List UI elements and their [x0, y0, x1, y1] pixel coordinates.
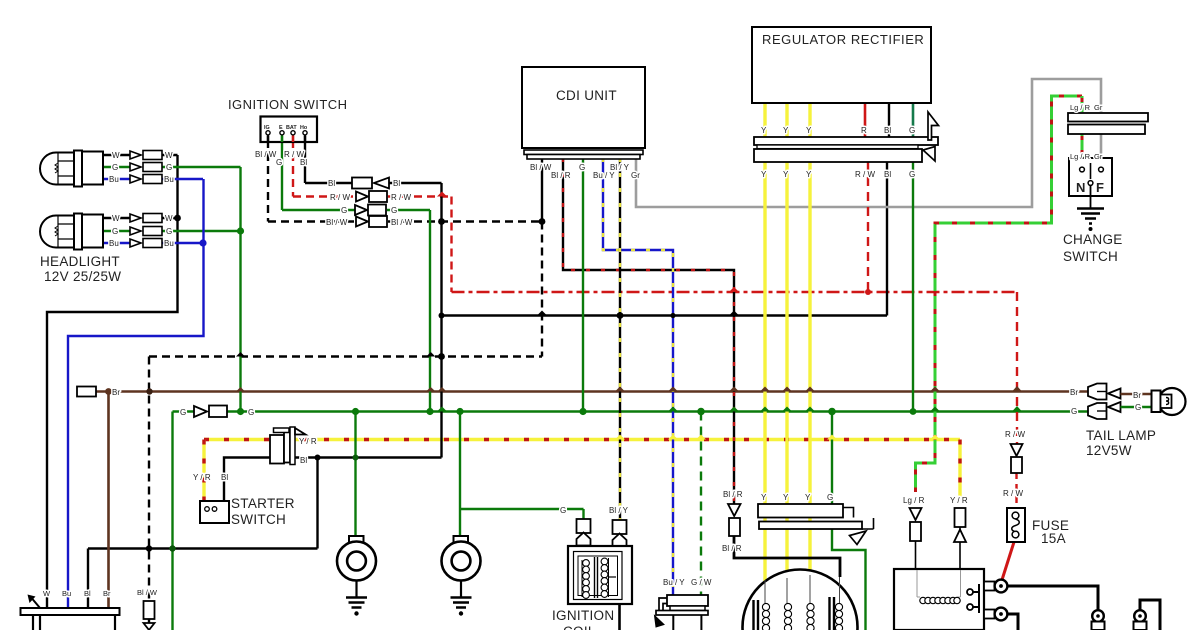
wire G from CDI: [582, 158, 584, 412]
svg-text:Y: Y: [783, 493, 789, 502]
wire Bu headlight blue: [68, 179, 204, 608]
horn 1: [337, 536, 376, 597]
svg-text:Y: Y: [761, 493, 767, 502]
svg-text:Bl / W: Bl / W: [530, 163, 552, 172]
svg-text:G: G: [276, 158, 282, 167]
svg-text:BAT: BAT: [286, 125, 297, 131]
svg-text:HEADLIGHT: HEADLIGHT: [40, 254, 120, 269]
wire Bl starter button: [224, 458, 271, 502]
svg-text:Bu: Bu: [109, 239, 119, 248]
svg-text:Bl / W: Bl / W: [391, 218, 413, 227]
svg-text:W: W: [112, 214, 120, 223]
Y/R connector pair: [954, 508, 966, 542]
wire R red from regulator: [864, 103, 867, 137]
svg-text:CDI UNIT: CDI UNIT: [556, 88, 617, 103]
svg-text:Gr: Gr: [631, 171, 640, 180]
resistor on Bl/W tail: [144, 601, 155, 630]
regulator rectifier box: [752, 27, 931, 103]
svg-text:G: G: [909, 126, 915, 135]
svg-text:Y / R: Y / R: [299, 437, 317, 446]
svg-text:Bl: Bl: [221, 473, 228, 482]
starter relay coil: [920, 597, 960, 603]
svg-text:E: E: [279, 125, 283, 131]
wire Bl/W from IG pin: [267, 140, 269, 222]
svg-text:Bl: Bl: [393, 179, 400, 188]
svg-text:IGNITION: IGNITION: [552, 608, 614, 623]
node R/W regulator join: [865, 289, 871, 295]
ignition coil box: [568, 546, 632, 630]
svg-text:G: G: [112, 227, 118, 236]
svg-text:R / W: R / W: [1003, 489, 1023, 498]
svg-text:G: G: [560, 506, 566, 515]
CDI unit box: [522, 67, 645, 159]
brown bus end connector: [77, 387, 96, 397]
node Bl/W bus x442: [438, 218, 445, 225]
svg-text:Bu: Bu: [109, 175, 119, 184]
svg-text:Y: Y: [761, 170, 767, 179]
svg-text:G: G: [1071, 407, 1077, 416]
svg-text:G: G: [112, 163, 118, 172]
svg-text:G: G: [180, 408, 186, 417]
wire Bl kill bus riser to regulator: [886, 162, 888, 316]
wire R/W from BAT pin: [293, 140, 452, 292]
svg-text:Bl / Y: Bl / Y: [609, 506, 629, 515]
svg-text:G: G: [579, 163, 585, 172]
wire hops on Bl/W dashed horizontal: [236, 352, 435, 357]
wire Bu/Y from CDI: [603, 158, 673, 595]
node G low cross: [169, 545, 175, 551]
svg-text:G: G: [341, 206, 347, 215]
wire G tail pigtail: [1121, 406, 1153, 409]
svg-text:Br: Br: [1070, 388, 1078, 397]
wire Lg/R light green from change switch to starter relay: [916, 96, 1083, 492]
node G CDI join: [579, 408, 586, 415]
ground horn 2: [451, 598, 472, 616]
wire Gr gray from CDI to change switch: [636, 79, 1101, 207]
ignition coil Bl/Y connector: [613, 520, 627, 546]
svg-text:Lg / R: Lg / R: [1070, 103, 1091, 112]
wire G from E pin: [282, 140, 430, 412]
battery terminal 2: [1134, 610, 1147, 630]
node Bl/Y kill junction: [617, 312, 624, 319]
svg-text:STARTER: STARTER: [231, 496, 295, 511]
svg-text:Y: Y: [805, 493, 811, 502]
node Bl/W CDI join: [539, 218, 546, 225]
alternator 2P connector (Bu/Y G/W): [655, 595, 709, 630]
svg-text:R: R: [861, 126, 867, 135]
svg-text:CHANGE: CHANGE: [1063, 232, 1123, 247]
svg-text:Bu: Bu: [62, 589, 71, 598]
wire Bl/W from CDI: [149, 158, 542, 623]
wire hop on red R/W bullet row: [437, 192, 739, 293]
tail lamp Br spade pair: [1088, 384, 1121, 400]
svg-text:G: G: [1135, 403, 1141, 412]
svg-text:SWITCH: SWITCH: [231, 512, 286, 527]
svg-text:Bl: Bl: [884, 170, 891, 179]
svg-text:Ho: Ho: [300, 125, 308, 131]
ignition bullet row R/W: [356, 191, 387, 202]
wire Br tail pigtail: [1121, 393, 1153, 396]
wire Y/R drop to starter relay: [958, 440, 961, 570]
wire Bl/W dashed branch bus y221.5: [268, 220, 542, 222]
ignition bullet row G: [355, 205, 386, 216]
svg-text:Bl / Y: Bl / Y: [610, 163, 630, 172]
svg-text:Bl: Bl: [300, 456, 307, 465]
svg-text:Y: Y: [783, 126, 789, 135]
wire G/W to alternator connector: [700, 412, 702, 596]
wire Y yellow phase 2: [785, 103, 788, 578]
wire R/W fuse feed: [1015, 292, 1018, 508]
svg-text:Y: Y: [806, 170, 812, 179]
svg-text:Bl / W: Bl / W: [326, 218, 348, 227]
ground change switch: [1077, 209, 1104, 232]
wire Bl/Y from CDI: [619, 158, 621, 520]
svg-text:W: W: [112, 151, 120, 160]
node Bl kill bus tap: [439, 313, 445, 319]
node Bl/W low cross: [146, 545, 152, 551]
node Bl/W lower x442: [438, 353, 445, 360]
svg-text:R / W: R / W: [330, 193, 350, 202]
wire Lg/R change switch lower: [1081, 134, 1084, 165]
svg-text:W: W: [165, 214, 173, 223]
wire R battery cable from fuse: [1001, 542, 1014, 583]
wire Bl from Ho pin: [294, 140, 442, 549]
fuse 15A: [1007, 508, 1025, 542]
node G diode out: [237, 408, 244, 415]
wire Bl/W dashed horizontal y356.5: [149, 355, 542, 357]
svg-text:SWITCH: SWITCH: [1063, 249, 1118, 264]
wire Y yellow phase 1: [763, 103, 766, 581]
wire Bl kill bus y315.5: [442, 314, 888, 316]
wire hop on kill bus: [537, 311, 739, 316]
wire G headlight green: [103, 167, 241, 412]
ignition coil G connector: [577, 519, 591, 546]
magneto cores: [754, 597, 835, 630]
node G starter wire cross: [353, 455, 359, 461]
wire Br brown drop to handlebar: [107, 392, 110, 609]
ignition switch box: [261, 117, 318, 143]
svg-text:IGNITION SWITCH: IGNITION SWITCH: [228, 97, 347, 112]
svg-text:G: G: [248, 408, 254, 417]
svg-text:W: W: [43, 589, 51, 598]
battery terminal 1: [1092, 610, 1105, 630]
svg-text:G: G: [391, 206, 397, 215]
wire R/W red dash-dot bus y292: [452, 291, 1018, 293]
wire G horn branch 1: [354, 412, 356, 538]
svg-text:Bl / R: Bl / R: [722, 544, 742, 553]
svg-text:Bu / Y: Bu / Y: [663, 578, 685, 587]
svg-text:Br: Br: [1133, 391, 1141, 400]
node G regulator join: [910, 408, 917, 415]
svg-text:Bl: Bl: [328, 179, 335, 188]
headlight bulb 2: [40, 214, 103, 250]
node G switch join: [426, 408, 433, 415]
node G2 join: [237, 227, 244, 234]
magneto connector: [758, 504, 874, 545]
change switch connector: [1068, 113, 1148, 134]
svg-text:Lg / R: Lg / R: [903, 496, 925, 505]
svg-text:15A: 15A: [1041, 531, 1066, 546]
regulator connector: [754, 112, 939, 162]
node Bu/Y cross kill: [670, 313, 675, 318]
node G horn1 tap: [352, 408, 359, 415]
wire battery jumper bottom right: [1140, 600, 1160, 630]
svg-text:Gr: Gr: [1094, 103, 1103, 112]
wire Gr gray change switch lower: [1100, 134, 1103, 165]
svg-text:Br: Br: [112, 388, 120, 397]
svg-text:Bl: Bl: [884, 126, 891, 135]
svg-text:Bl / W: Bl / W: [255, 150, 277, 159]
wire hops on green bus: [437, 406, 1022, 412]
Bl/R connector pair: [728, 504, 741, 536]
svg-text:TAIL LAMP: TAIL LAMP: [1086, 428, 1156, 443]
svg-text:G: G: [166, 163, 172, 172]
ground horn 1: [346, 598, 367, 616]
svg-text:12V5W: 12V5W: [1086, 443, 1132, 458]
starter relay box: [894, 569, 984, 630]
tail lamp G spade pair: [1088, 402, 1121, 419]
svg-text:Bl / W: Bl / W: [137, 588, 158, 597]
svg-text:Bu / Y: Bu / Y: [593, 171, 615, 180]
starter button connector: [270, 427, 306, 465]
svg-text:Y / R: Y / R: [193, 473, 211, 482]
node G magneto tap: [828, 408, 836, 416]
svg-text:G: G: [827, 493, 833, 502]
wire Lg/R connector tail: [915, 541, 917, 569]
wire G magneto ground branch: [832, 412, 866, 630]
wire Bl low bus y548.5 from starter circuit: [88, 549, 318, 609]
node W2 join: [174, 215, 181, 222]
wire W headlight white: [47, 155, 178, 608]
node G G/W tap: [697, 408, 705, 416]
svg-text:Y: Y: [761, 126, 767, 135]
svg-text:Bl / R: Bl / R: [551, 171, 571, 180]
svg-text:R / W: R / W: [391, 193, 411, 202]
magneto flywheel: [743, 570, 858, 630]
wire Bl starter cable to terminal: [1005, 586, 1098, 611]
handlebar switch block bottom left: [21, 595, 120, 630]
svg-text:R / W: R / W: [855, 170, 875, 179]
wire Bl below regulator: [888, 103, 890, 137]
wire G regulator ground: [912, 103, 915, 412]
wire G left frame ground drop: [171, 412, 173, 630]
node Bu2 join: [199, 239, 206, 246]
change switch box: [1069, 158, 1112, 208]
wire Y/R yellow bus y439.5: [204, 438, 960, 441]
wire Y yellow phase 3: [808, 103, 811, 580]
svg-text:Bl: Bl: [300, 158, 307, 167]
wire hops on yellow bus: [615, 435, 940, 440]
starter relay terminals: [995, 580, 1008, 621]
svg-text:REGULATOR RECTIFIER: REGULATOR RECTIFIER: [762, 32, 924, 47]
svg-text:G: G: [166, 227, 172, 236]
ignition bullet connectors row Bl: [352, 178, 389, 189]
svg-text:12V 25/25W: 12V 25/25W: [44, 269, 121, 284]
wire Bl lower terminal cable: [1005, 614, 1018, 630]
wire Bl/Y ignition coil primary: [619, 534, 621, 547]
wire Br brown bus y391: [95, 390, 1088, 393]
starter relay contacts: [967, 582, 995, 619]
svg-text:Y: Y: [783, 170, 789, 179]
starter switch box: [200, 501, 229, 523]
node G horn2 tap: [456, 408, 463, 415]
node Br Bl/W cross: [146, 388, 152, 394]
wire R/W below regulator connector: [867, 162, 869, 292]
wire Y/R starter button: [202, 440, 205, 502]
svg-text:Bl / R: Bl / R: [723, 490, 743, 499]
node Bl starter branch: [315, 455, 321, 461]
svg-text:R / W: R / W: [1005, 430, 1025, 439]
svg-text:COIL: COIL: [563, 624, 596, 630]
wire hops on brown bus: [236, 386, 1022, 392]
svg-text:Bu: Bu: [164, 239, 174, 248]
svg-text:F: F: [1096, 180, 1104, 195]
tail lamp bulb: [1152, 388, 1186, 415]
svg-text:IG: IG: [264, 125, 270, 131]
horn 2: [442, 536, 481, 597]
wire G green bus y411.5: [173, 410, 1089, 413]
svg-text:Br: Br: [103, 589, 111, 598]
ignition bullet row Bl/W: [356, 216, 387, 227]
svg-text:Lg / R: Lg / R: [1070, 152, 1091, 161]
R/W bullet connector pair above fuse: [1011, 444, 1023, 473]
wire G horn branch 2 and ignition coil feed: [460, 412, 584, 538]
svg-text:N: N: [1076, 180, 1086, 195]
svg-text:Gr: Gr: [1094, 152, 1103, 161]
G bullet connector on green bus: [194, 406, 227, 418]
svg-text:W: W: [165, 151, 173, 160]
svg-text:Y: Y: [806, 126, 812, 135]
wire Bl/R from CDI: [563, 158, 734, 504]
svg-text:G: G: [909, 170, 915, 179]
wire Bl/R exciter heavy segment over flywheel: [734, 536, 840, 603]
svg-text:Bl: Bl: [84, 589, 91, 598]
svg-text:Y / R: Y / R: [950, 496, 968, 505]
magneto coils: [762, 603, 842, 630]
svg-text:Bu: Bu: [164, 175, 174, 184]
Lg/R connector pair: [910, 508, 922, 541]
svg-text:G / W: G / W: [691, 578, 712, 587]
headlight bulb 1: [40, 151, 103, 187]
headlight bullet connectors (6 pairs): [130, 151, 162, 248]
node Br box tap: [105, 388, 112, 395]
magneto coil leads: [765, 575, 840, 603]
